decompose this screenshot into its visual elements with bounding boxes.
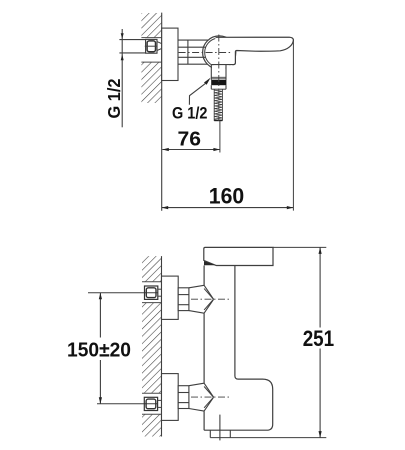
wall section hatch, lower band (top view) (141, 62, 161, 103)
white band under black ring (211, 85, 226, 89)
neck through wall face, top inlet (158, 289, 163, 296)
leader line for G 1/2 (right) (189, 84, 205, 105)
threaded outlet stud (zigzag thread) (214, 89, 222, 121)
wall section hatch, lower band (bottom view) (142, 414, 162, 436)
dome inner arc (205, 38, 217, 66)
dash-dot centre line, top connector (191, 298, 232, 300)
wall face line (bottom view) (161, 256, 163, 436)
svg-text:251: 251 (303, 326, 335, 351)
outlet vertical centre line (dash-dot) (218, 35, 220, 122)
svg-text:G 1/2: G 1/2 (172, 104, 207, 122)
dash-dot centre line, bottom connector (191, 396, 232, 398)
shower outlet collar (211, 65, 232, 80)
outlet centre line (bottom view) (219, 415, 221, 441)
taper from thread square to wall face (157, 42, 162, 51)
lever handle blade outline (211, 37, 293, 64)
svg-text:G 1/2: G 1/2 (104, 78, 124, 118)
eccentric thread square, top inlet (145, 286, 158, 299)
black chamfer wedge of handle plate (204, 261, 216, 265)
wall face line / extension line for dims 76 and 160 (161, 13, 163, 211)
outlet centre line solid tail / extension for dim 76 (219, 121, 221, 153)
dimension G 1/2 thread (vertical line with arrows) (121, 29, 124, 127)
dimension 76 (wall to outlet centre) (162, 127, 220, 151)
eccentric thread square (top view) (145, 39, 157, 53)
union nut, bottom connector (178, 386, 189, 409)
extension line for dim 150±20, bottom inlet centre (97, 403, 158, 405)
extension line for dim 150±20, top inlet centre (88, 292, 158, 294)
wall section hatch, upper band (bottom view) (142, 256, 162, 282)
black ring of G 1/2 outlet (211, 80, 226, 85)
svg-text:150±20: 150±20 (67, 339, 131, 362)
stud end cap (214, 120, 222, 122)
wall section hatch, middle band (bottom view) (142, 303, 162, 394)
wall thread nipple G 1/2 (top view) (119, 40, 145, 53)
union nut, top connector (178, 288, 189, 311)
cone seat, bottom connector (189, 383, 214, 411)
neck through wall face, bottom inlet (158, 400, 163, 407)
escutcheon plate, top (bottom view) (162, 276, 179, 319)
cartridge dome cap (circle) (203, 36, 236, 69)
faucet body left edge segments (interrupted by cones) (203, 266, 205, 431)
svg-text:160: 160 (209, 184, 244, 209)
svg-text:76: 76 (178, 127, 202, 150)
pipe horizontal centre line (dash-dot) (179, 52, 231, 54)
wall section hatch, upper band (top view) (141, 13, 161, 38)
faucet body right contour (bottom view) (204, 266, 273, 431)
cone seat, top connector (189, 285, 214, 313)
dimension 251 (overall height) (210, 247, 334, 437)
escutcheon plate, bottom (bottom view) (162, 374, 179, 421)
dimension 160 (wall to handle tip) (162, 184, 294, 210)
lever handle blade white fill (covers dome right part) (211, 37, 293, 64)
eccentric thread square, bottom inlet (144, 397, 157, 410)
dimension 150±20 (inlet spacing) (67, 293, 131, 404)
outlet foot (bottom view) (210, 430, 230, 437)
leader arrowhead (204, 78, 211, 85)
connection pipe wall-to-body (top view) (178, 40, 208, 64)
handle plate (bottom view) (204, 247, 273, 265)
extension line at handle tip for dim 160 (292, 40, 294, 211)
escutcheon plate (top view) (162, 28, 178, 80)
